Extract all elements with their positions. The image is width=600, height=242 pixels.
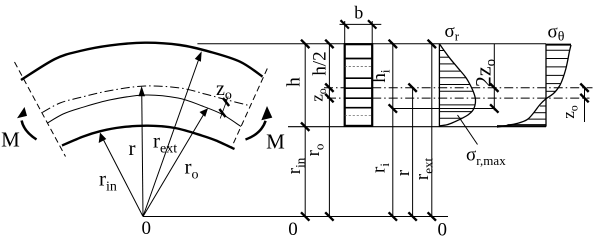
svg-text:0: 0 xyxy=(141,218,151,239)
2z_o dimension line xyxy=(493,44,495,110)
section lamination lines (dashed) xyxy=(345,66,373,115)
dimension line h/2, z_o, r_o vertical xyxy=(328,44,330,217)
svg-text:0: 0 xyxy=(288,219,298,240)
baseline through 0 xyxy=(143,216,448,218)
inner surface reference line xyxy=(288,126,498,128)
dimension line h / r_in vertical xyxy=(304,44,306,217)
sigma_r hatch xyxy=(439,51,475,119)
outer surface reference line xyxy=(197,43,546,45)
sigma_r curve xyxy=(439,44,475,126)
2z_o ticks xyxy=(490,84,498,113)
svg-text:r: r xyxy=(393,169,414,176)
z_o tick on neutral arc (left figure) xyxy=(219,109,225,117)
svg-text:b: b xyxy=(354,3,363,23)
sigma_theta axis xyxy=(545,44,547,127)
dimension ticks xyxy=(301,40,436,221)
radius arrow r_o xyxy=(143,108,208,216)
2z_o extension line at sigma_r max level xyxy=(393,108,495,110)
dimension line r vertical xyxy=(412,88,414,217)
outer arc of curved beam xyxy=(21,43,263,80)
left cut line (dashed) xyxy=(15,62,66,157)
sigma_theta bottom edge xyxy=(497,125,546,127)
right cut line (dashed) xyxy=(231,69,267,149)
inner arc of curved beam xyxy=(62,126,235,149)
dimension line r_ext vertical xyxy=(431,44,433,217)
svg-text:r: r xyxy=(129,136,136,160)
svg-text:M: M xyxy=(266,130,285,154)
radius arrow r_ext xyxy=(143,51,202,216)
z_o dimension right side xyxy=(580,84,588,123)
sigma_r axis xyxy=(438,44,440,127)
section lamination lines (solid) xyxy=(345,59,373,108)
centroidal axis arc (dash-dot) xyxy=(42,86,249,112)
cross-section rectangle xyxy=(345,44,373,126)
centroid axis line A (dash-dot) xyxy=(324,87,593,89)
neutral axis line B (dash-dot) xyxy=(327,97,590,99)
z_o dimension line (left figure) xyxy=(220,97,228,119)
neutral axis arc xyxy=(47,95,241,127)
sigma_theta top edge xyxy=(546,44,571,46)
svg-text:M: M xyxy=(1,128,20,152)
moment M arrow right xyxy=(246,106,273,140)
dimension b xyxy=(340,20,382,44)
radius arrow r xyxy=(139,86,146,217)
sigma_theta hatch bottom lobe xyxy=(508,106,547,125)
svg-text:h/2: h/2 xyxy=(310,51,331,75)
sigma_theta hatch top lobe xyxy=(546,50,569,91)
svg-text:0: 0 xyxy=(438,220,448,241)
svg-text:h: h xyxy=(283,77,304,87)
sigma_theta curve xyxy=(497,45,571,127)
moment M arrow left xyxy=(17,107,37,140)
sigma_r,max leader line xyxy=(458,115,478,145)
z_o tick on centroid arc (left figure) xyxy=(223,98,229,106)
radius arrow r_in xyxy=(99,133,143,217)
dimension line h_i / r_i vertical xyxy=(392,44,394,217)
